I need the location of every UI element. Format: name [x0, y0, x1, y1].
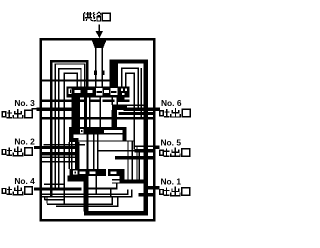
channel walls below P1 right [111, 98, 113, 106]
thin channel P2 cup to P3 [68, 142, 70, 169]
right lower thick line [139, 193, 156, 197]
line below P1 [42, 100, 130, 103]
mid-right thin line [98, 150, 134, 152]
P2 right elbow [123, 134, 127, 141]
No.5 thin line [134, 145, 155, 147]
upper-right loop thin A [122, 68, 138, 108]
thin line y203.6 [47, 197, 112, 204]
svg-text:No. 4: No. 4 [14, 176, 35, 186]
upper crossing line y80 [42, 80, 112, 82]
upper-right loop thick right leg [144, 59, 148, 215]
piston P3 body [70, 169, 125, 176]
P1 lower-right stub [117, 97, 125, 99]
channel walls below P1 center [84, 98, 87, 128]
bottom-left lines [42, 190, 128, 195]
No.4 leader [34, 188, 81, 191]
right channel block [112, 104, 127, 110]
upper-left loop line2 [55, 64, 84, 189]
upper-left loop thick [51, 61, 87, 197]
thin line y199.9 [45, 199, 65, 201]
piston P1 body [66, 87, 129, 98]
channels P2 to P3 [87, 134, 89, 169]
supply channel walls [95, 48, 97, 87]
mid-left band [42, 152, 80, 155]
svg-text:No. 3: No. 3 [14, 98, 35, 108]
upper-right loop thick top [109, 59, 148, 63]
P3 right elbow [120, 169, 125, 184]
P2 elbow link line [79, 140, 135, 142]
P3 outlet channel steps [84, 175, 89, 211]
upper-right loop thick left leg [109, 59, 118, 86]
thin line y206.2 [56, 198, 118, 207]
supply channel collar [94, 70, 97, 75]
mid-left thin line y161.8 [42, 161, 76, 163]
P3 internals [73, 169, 116, 176]
No.4 thin line [44, 183, 64, 185]
bottom thick band [84, 211, 148, 216]
piston P2 body [69, 127, 127, 134]
mid-left thin line y157.2 [42, 156, 80, 158]
svg-text:No. 5: No. 5 [161, 137, 182, 147]
svg-text:No. 1: No. 1 [161, 176, 182, 186]
No.1 leader [144, 186, 154, 189]
P2 internals [80, 129, 84, 133]
right-mid thin verticals [127, 141, 129, 180]
supply arrow [96, 25, 103, 39]
step to y197 line [89, 188, 117, 190]
upper-left loop line4 [64, 73, 77, 205]
No.6 leader stub [153, 108, 160, 111]
channel stub below P3 [95, 176, 97, 194]
full line y118 [40, 117, 153, 119]
right thin line y105 and thick line y112 [123, 104, 143, 106]
No.2 leader line [44, 144, 86, 146]
P3 left foot [68, 175, 86, 181]
P2 left cup [69, 127, 74, 142]
valve body outer frame [41, 39, 154, 220]
piston P1 internals [69, 88, 128, 95]
thick channel P2-P3 [75, 142, 79, 169]
No.3/No.6 connecting line [32, 108, 39, 110]
No.5 thick line [134, 149, 155, 152]
right thin vertical x141 [140, 68, 142, 118]
supply funnel [92, 40, 107, 48]
svg-text:No. 6: No. 6 [161, 98, 182, 108]
mid-right band [115, 156, 153, 160]
center thick channel P1-P2 [72, 98, 80, 128]
svg-text:No. 2: No. 2 [14, 136, 35, 146]
upper-right loop thin B [126, 73, 134, 149]
No.5 leader stub [153, 146, 159, 149]
upper-left loop line3 [59, 69, 81, 189]
label supply port 供給口 [83, 12, 110, 22]
